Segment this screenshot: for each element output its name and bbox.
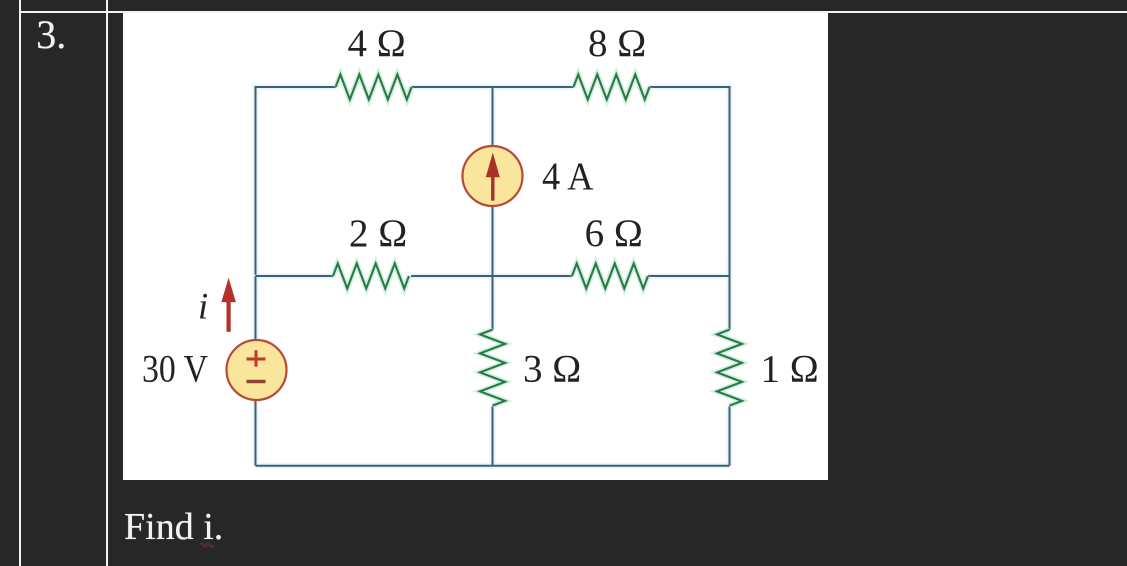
svg-text:30 V: 30 V: [142, 348, 208, 391]
white circuit figure panel: [123, 13, 828, 480]
wire top-middle segment: [412, 86, 574, 88]
svg-text:4 Ω: 4 Ω: [348, 22, 406, 65]
wire bottom: [256, 465, 730, 467]
current arrow i: [221, 278, 236, 302]
wire middle vertical lower: [491, 206, 493, 330]
resistor 8ohm zigzag: [573, 75, 649, 100]
voltage source plus sign: [247, 350, 266, 366]
wire middle horizontal left: [256, 275, 333, 277]
wire halo mid vertical lower: [489, 206, 495, 330]
svg-text:6 Ω: 6 Ω: [585, 212, 643, 255]
wire middle vertical below 3ohm: [491, 407, 493, 466]
resistor 6ohm zigzag: [572, 264, 648, 289]
wire halo middle-mid: [411, 273, 572, 279]
resistor 1ohm zigzag vertical: [717, 330, 742, 406]
svg-text:i: i: [198, 286, 208, 327]
wire middle horizontal mid: [411, 275, 572, 277]
wire halo bottom: [256, 463, 730, 469]
table horizontal border top: [19, 11, 1127, 13]
wire middle horizontal right: [648, 275, 729, 277]
svg-text:8 Ω: 8 Ω: [588, 22, 646, 65]
resistor 2ohm zigzag: [333, 264, 409, 289]
wire halo top-right: [649, 87, 729, 330]
voltage source minus sign: [247, 380, 266, 383]
table vertical border left: [19, 0, 21, 566]
caption Find i.: [124, 508, 223, 546]
halo resistor 4ohm zigzag: [336, 75, 412, 100]
current source arrow up: [486, 153, 500, 178]
wire top-left segment: [256, 87, 336, 275]
halo resistor 1ohm zigzag vertical: [717, 330, 742, 406]
wire halo mid below 3ohm: [489, 407, 495, 466]
halo resistor 3ohm zigzag vertical: [480, 330, 505, 406]
wire halo mid vertical upper: [489, 87, 495, 146]
halo resistor 6ohm zigzag: [572, 264, 648, 289]
wire halo left lower: [253, 276, 259, 466]
wire halo top-left: [256, 87, 336, 275]
resistor 3ohm zigzag vertical: [480, 330, 505, 406]
wire halo top-middle: [412, 84, 574, 90]
svg-text:1 Ω: 1 Ω: [760, 348, 818, 391]
wire right below 1ohm: [728, 407, 730, 466]
wire left lower through source: [255, 276, 257, 466]
wire top-right segment: [649, 87, 729, 330]
wire halo middle-left: [256, 273, 333, 279]
cell number 3.: [36, 15, 66, 55]
halo resistor 2ohm zigzag: [333, 264, 409, 289]
resistor 4ohm zigzag: [336, 75, 412, 100]
spellcheck squiggle under i: [200, 540, 214, 548]
svg-text:4 A: 4 A: [542, 155, 593, 198]
wire middle vertical upper: [491, 87, 493, 146]
circuit schematic svg: [123, 13, 828, 480]
svg-text:2 Ω: 2 Ω: [349, 212, 407, 255]
current source I1 circle: [463, 146, 523, 206]
svg-text:3 Ω: 3 Ω: [523, 348, 581, 391]
table vertical border inner: [106, 0, 108, 566]
halo resistor 8ohm zigzag: [573, 75, 649, 100]
wire halo middle-right: [648, 273, 729, 279]
voltage source V1 circle: [227, 340, 287, 400]
wire halo right below 1ohm: [726, 407, 732, 466]
